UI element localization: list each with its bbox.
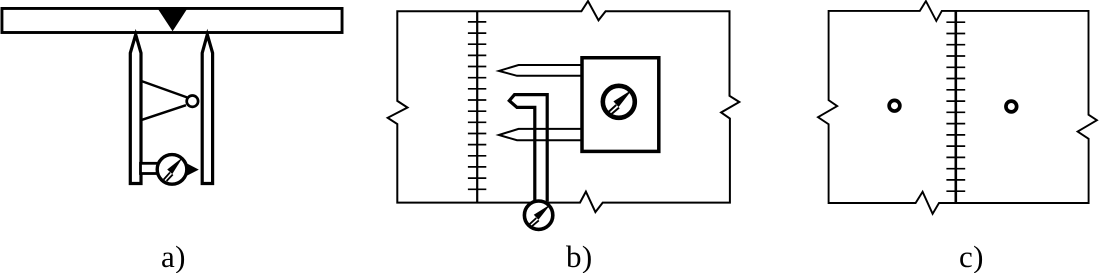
svg-text:b): b): [566, 239, 593, 273]
svg-text:a): a): [161, 239, 186, 273]
svg-text:c): c): [959, 239, 984, 273]
